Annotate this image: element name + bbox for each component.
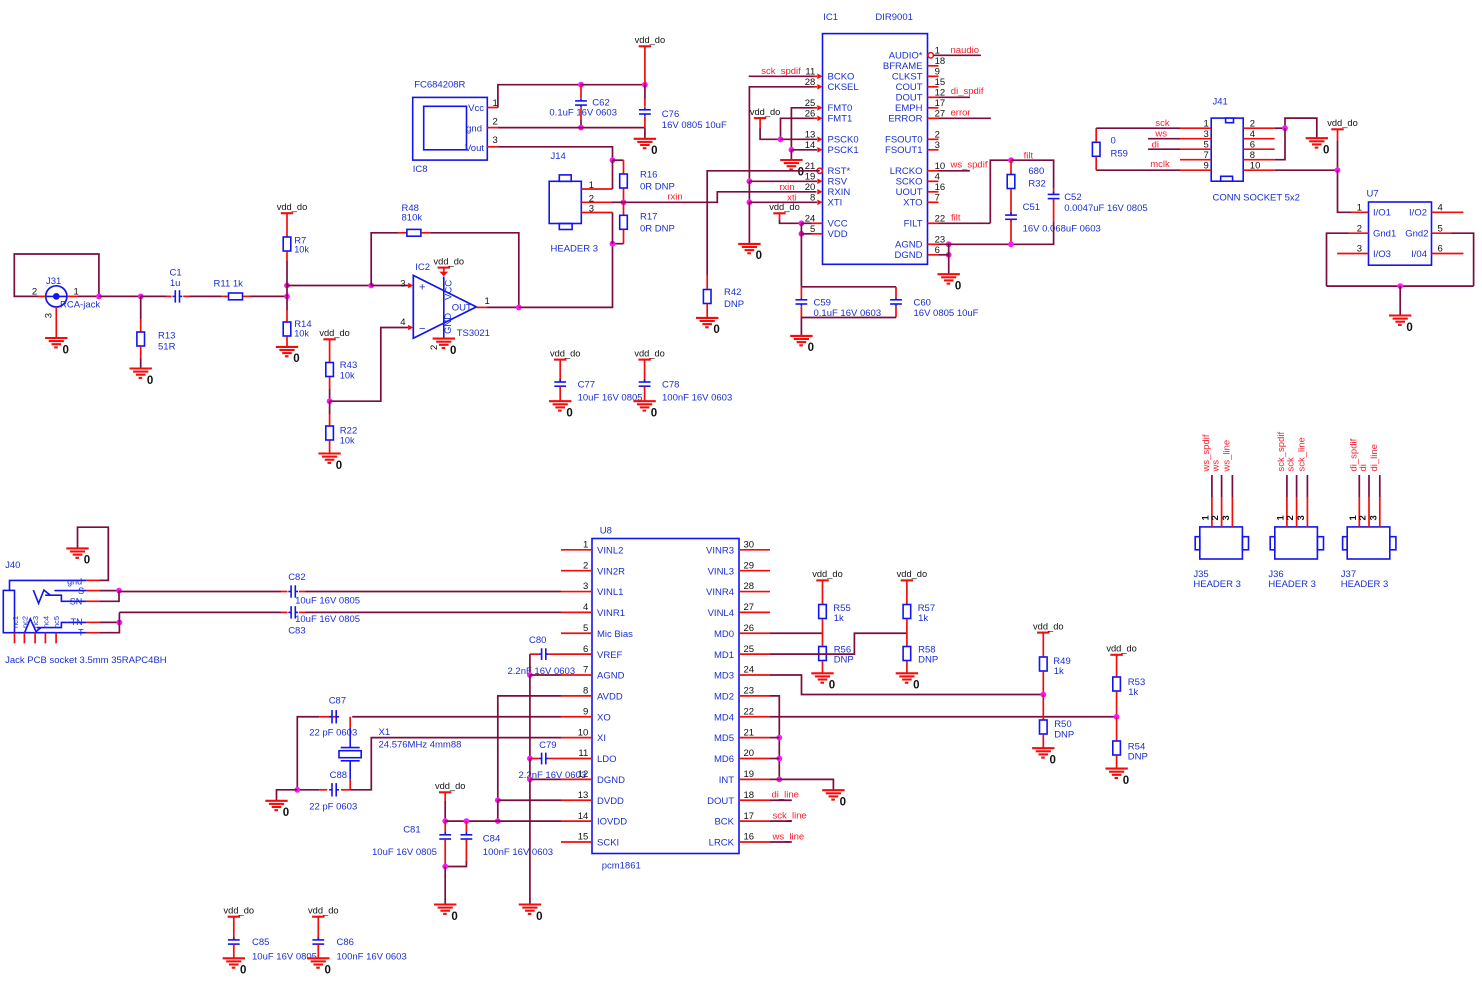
- svg-text:vdd_do: vdd_do: [635, 35, 666, 45]
- svg-text:vdd_do: vdd_do: [634, 348, 665, 358]
- capacitor C78: [639, 360, 733, 404]
- node junction C51 bottom: [1008, 241, 1014, 247]
- node junction C88 ground: [294, 787, 300, 793]
- wire vdd net down to U7 pin1: [1338, 170, 1369, 212]
- svg-text:21: 21: [744, 727, 755, 738]
- svg-text:XTO: XTO: [903, 198, 922, 209]
- svg-text:vdd_do: vdd_do: [1327, 118, 1358, 128]
- power vdd_do at C85: [224, 906, 255, 917]
- wire filt to C52: [1011, 160, 1054, 189]
- svg-text:sck_spdif: sck_spdif: [761, 66, 801, 77]
- power vdd_do at C78: [634, 348, 665, 359]
- svg-text:DOUT: DOUT: [896, 93, 923, 104]
- svg-text:0: 0: [913, 680, 919, 692]
- pin 3 wire J35: [1231, 475, 1233, 527]
- wire CKSEL to ground rail: [749, 87, 817, 182]
- svg-text:26: 26: [744, 623, 755, 634]
- wire C59 bottom stub: [800, 307, 802, 318]
- svg-text:R32: R32: [1028, 179, 1045, 190]
- power vdd_do at R53: [1106, 644, 1137, 655]
- wire R13 top: [140, 296, 142, 331]
- wire R53 to MD4 node: [1116, 692, 1118, 717]
- capacitor C83: [288, 606, 360, 636]
- wire C88 to XI: [341, 738, 561, 790]
- svg-text:0: 0: [1323, 145, 1329, 157]
- ground at C76: [634, 139, 658, 157]
- svg-text:24: 24: [744, 665, 755, 676]
- wire stub R48 left: [398, 232, 407, 234]
- capacitor C51: [1005, 202, 1101, 235]
- svg-text:DVDD: DVDD: [597, 796, 624, 807]
- pin 26 FMT1 IC1: [805, 108, 853, 124]
- wire C59 C60 top bar: [801, 286, 896, 288]
- pin 30 VINR3 U8: [706, 540, 770, 557]
- resistor R57: [903, 603, 935, 624]
- wire output to J14 riser: [519, 244, 613, 308]
- svg-text:Vcc: Vcc: [468, 103, 484, 114]
- resistor R48: [402, 203, 423, 236]
- capacitor C76: [639, 107, 727, 131]
- capacitor C82: [288, 572, 360, 607]
- svg-text:C88: C88: [330, 770, 347, 781]
- ground at J40: [66, 548, 90, 566]
- wire R59 to mclk line: [1096, 157, 1180, 170]
- node junction INT: [776, 776, 782, 782]
- svg-text:7: 7: [583, 665, 588, 676]
- wire RST to R42: [706, 275, 708, 289]
- svg-text:vdd_do: vdd_do: [319, 328, 350, 338]
- svg-text:1: 1: [583, 540, 588, 551]
- node junction rxin: [621, 199, 627, 205]
- wire J41 pin8 to pin2 rail: [1275, 128, 1285, 160]
- svg-text:gnd: gnd: [466, 124, 482, 135]
- svg-text:I/04: I/04: [1411, 249, 1427, 260]
- svg-text:22: 22: [744, 706, 755, 717]
- svg-text:RSV: RSV: [828, 177, 848, 188]
- svg-text:0: 0: [1111, 135, 1116, 146]
- ground at R13: [130, 369, 154, 387]
- svg-text:Mic Bias: Mic Bias: [597, 629, 633, 640]
- power vdd_do at R57: [897, 569, 928, 580]
- wire vdd to R49: [1042, 633, 1044, 657]
- wire J40 gnd to ground loop: [78, 527, 109, 580]
- node junction S: [116, 588, 122, 594]
- wire TN to C83: [119, 612, 287, 622]
- svg-text:18: 18: [744, 790, 755, 801]
- pin 10 XI U8: [561, 727, 606, 744]
- svg-text:DIR9001: DIR9001: [875, 12, 913, 23]
- wire C82 to U8 pin3: [299, 591, 561, 593]
- node junction MD6: [776, 756, 782, 762]
- pin 2 FSOUT0 IC1: [885, 129, 940, 145]
- svg-text:nc1: nc1: [11, 616, 20, 628]
- wire rail AGND to LDO: [529, 675, 531, 758]
- node junction C62 bottom: [578, 125, 584, 131]
- wire XTI: [749, 201, 817, 203]
- ground at AGND DGND: [938, 274, 962, 292]
- pin 2 wire J35: [1221, 475, 1223, 527]
- svg-text:VINR3: VINR3: [706, 545, 734, 556]
- wire vdd to R53: [1116, 655, 1118, 677]
- svg-text:sck: sck: [1155, 118, 1170, 129]
- wire S to C82: [119, 590, 288, 593]
- node junction J41 pin2: [1282, 125, 1288, 131]
- svg-text:0: 0: [336, 460, 342, 472]
- pin 1 AUDIO* IC1: [889, 45, 940, 61]
- capacitor C80: [508, 635, 576, 677]
- svg-text:2: 2: [583, 560, 588, 571]
- wire R32 to C51: [1010, 189, 1012, 215]
- connector J41 CONN SOCKET 5x2: [1211, 97, 1300, 204]
- svg-text:16V 0805 10uF: 16V 0805 10uF: [662, 120, 727, 131]
- wire vdd to R43: [329, 339, 331, 362]
- ground at C77: [549, 401, 573, 419]
- pin 23 MD2 U8: [714, 686, 770, 703]
- wire R50 to ground: [1042, 735, 1044, 749]
- ground at R50: [1032, 748, 1056, 766]
- node junction R17 output: [610, 241, 616, 247]
- pin 4 arrow IC2: [408, 325, 413, 331]
- wire rail LDO to DGND: [529, 759, 531, 780]
- wire R48 to output node: [421, 233, 518, 308]
- net ws wire: [1148, 138, 1180, 140]
- svg-text:LDO: LDO: [597, 754, 617, 765]
- net sck_spdif wire to BCKO: [749, 75, 817, 77]
- wire J14 pin3: [581, 213, 612, 244]
- capacitor C79: [519, 740, 587, 781]
- net naudio wire: [933, 54, 981, 56]
- node junction VDD: [799, 231, 805, 237]
- pin 11 BCKO IC1: [805, 66, 854, 82]
- svg-text:ws: ws: [1154, 129, 1167, 140]
- svg-text:IC1: IC1: [823, 12, 838, 23]
- pin 9 CLKST IC1: [892, 66, 940, 82]
- svg-text:Gnd1: Gnd1: [1373, 229, 1396, 240]
- connector J35 HEADER 3: [1193, 527, 1248, 590]
- pin 24 VCC IC1: [805, 213, 848, 229]
- wire R16 branch: [613, 159, 624, 161]
- wire R17 bottom stub: [623, 230, 625, 244]
- svg-text:IC2: IC2: [415, 262, 430, 273]
- pin 1 VINL2 U8: [561, 540, 623, 557]
- svg-text:C76: C76: [662, 109, 679, 120]
- svg-text:0: 0: [798, 166, 804, 178]
- resistor R55: [819, 603, 851, 624]
- svg-text:error: error: [951, 108, 971, 119]
- wire R49 to MD3 node: [1042, 672, 1044, 695]
- wire R16 top stub: [623, 160, 625, 174]
- node junction input lower: [284, 294, 290, 300]
- svg-text:0: 0: [955, 281, 961, 293]
- node junction DGND: [946, 252, 952, 258]
- svg-text:1: 1: [485, 296, 490, 307]
- svg-text:3: 3: [1221, 515, 1232, 520]
- svg-text:10: 10: [578, 727, 589, 738]
- wire inverting input: [330, 328, 408, 402]
- resistor R43: [326, 360, 357, 380]
- svg-text:I/O2: I/O2: [1409, 208, 1427, 219]
- power vdd_do at FMT1: [750, 107, 781, 118]
- resistor R49: [1040, 656, 1071, 677]
- svg-text:0: 0: [651, 145, 657, 157]
- svg-text:0: 0: [829, 680, 835, 692]
- ground at R14: [276, 347, 300, 365]
- svg-text:13: 13: [578, 790, 589, 801]
- svg-text:di_line: di_line: [1369, 444, 1380, 471]
- svg-text:0: 0: [536, 911, 542, 923]
- wire R49 R50 column: [1042, 695, 1044, 720]
- svg-text:11: 11: [578, 748, 588, 759]
- crystal X1: [339, 717, 461, 790]
- svg-text:MD2: MD2: [714, 691, 734, 702]
- svg-text:15: 15: [578, 832, 589, 843]
- wire R54 to ground: [1116, 756, 1118, 769]
- svg-text:GND: GND: [443, 313, 454, 334]
- svg-text:I/O3: I/O3: [1373, 249, 1391, 260]
- svg-text:di_line: di_line: [772, 790, 799, 801]
- svg-text:0.0047uF 16V 0805: 0.0047uF 16V 0805: [1064, 203, 1147, 214]
- capacitor C59: [796, 297, 882, 319]
- svg-text:VINL1: VINL1: [597, 587, 623, 598]
- node junction pin10 vdd U7: [1335, 167, 1341, 173]
- svg-text:ERROR: ERROR: [888, 114, 922, 125]
- wire rail to ground: [748, 202, 750, 244]
- resistor R54: [1113, 741, 1148, 763]
- ground at J41: [1306, 138, 1330, 156]
- svg-text:28: 28: [744, 581, 755, 592]
- node junction PSCK0 vdd: [778, 136, 784, 142]
- svg-text:RCA-jack: RCA-jack: [60, 300, 100, 311]
- svg-text:vdd_do: vdd_do: [435, 781, 466, 791]
- svg-text:100nF 16V 0603: 100nF 16V 0603: [483, 847, 553, 858]
- wire AVDD to rail: [498, 696, 561, 800]
- node junction U7 ground: [1397, 283, 1403, 289]
- wire U7 rail to ground: [1399, 286, 1401, 315]
- wire XO net: [297, 717, 561, 790]
- pin 8 AVDD U8: [561, 686, 623, 703]
- power vdd_do at VCC: [769, 202, 800, 213]
- wire R32 top stub: [1010, 160, 1012, 174]
- svg-text:VINR1: VINR1: [597, 608, 625, 619]
- wire C59 to ground: [800, 318, 802, 336]
- node junction input upper: [284, 283, 290, 289]
- svg-text:22 pF 0603: 22 pF 0603: [309, 801, 357, 812]
- wire J31 pin2 loop to pin1 node: [14, 254, 99, 296]
- ground at C86: [307, 958, 331, 976]
- svg-text:RXIN: RXIN: [828, 187, 851, 198]
- pin stubs J41 row 5: [1180, 148, 1275, 150]
- wire MD4 net: [770, 716, 1117, 718]
- svg-text:AGND: AGND: [895, 240, 923, 251]
- svg-text:19: 19: [744, 769, 755, 780]
- svg-text:XO: XO: [597, 712, 611, 723]
- wire VDD stub: [801, 233, 811, 235]
- svg-text:1k: 1k: [918, 613, 928, 624]
- wire C88 line: [297, 789, 327, 791]
- wire PSCK1: [791, 149, 817, 151]
- pin 17 EMPH IC1: [895, 98, 945, 114]
- wire rail to ground: [529, 779, 531, 904]
- wire MD6 stub: [770, 758, 779, 760]
- svg-text:AGND: AGND: [597, 671, 625, 682]
- svg-text:HEADER 3: HEADER 3: [1341, 579, 1389, 590]
- pin 18 BFRAME IC1: [883, 56, 945, 72]
- svg-text:FC684208R: FC684208R: [414, 80, 465, 91]
- pin 7 AGND U8: [561, 665, 625, 682]
- svg-text:0: 0: [651, 408, 657, 420]
- wire node to C1: [141, 295, 172, 297]
- svg-text:0: 0: [1406, 322, 1412, 334]
- svg-text:IC8: IC8: [413, 164, 428, 175]
- svg-text:rxin: rxin: [667, 192, 682, 203]
- node junction DGND rail: [527, 776, 533, 782]
- svg-text:100nF 16V 0603: 100nF 16V 0603: [337, 952, 407, 963]
- connector J40 jack socket: [3, 560, 166, 666]
- svg-text:SCKO: SCKO: [896, 177, 923, 188]
- wire J40 TN pin: [86, 621, 119, 623]
- net sck_line wire: [770, 820, 792, 822]
- wire IC8 Vcc to vdd rail: [487, 85, 581, 108]
- node junction IOVDD: [495, 818, 501, 824]
- IC U8 pcm1861 body: [592, 526, 739, 872]
- svg-text:DNP: DNP: [834, 655, 854, 666]
- node junction filt: [1008, 157, 1014, 163]
- capacitor C60: [890, 287, 979, 319]
- svg-text:1: 1: [1357, 202, 1362, 213]
- wire INT to ground: [770, 778, 779, 780]
- node junction DVDD: [495, 797, 501, 803]
- wire R57 R58 column: [906, 619, 908, 646]
- svg-text:vdd_do: vdd_do: [277, 202, 308, 212]
- wire C80 corner to AGND rail: [529, 654, 531, 675]
- svg-text:2: 2: [493, 116, 498, 127]
- svg-text:3: 3: [44, 313, 55, 318]
- node junction PSCK1 rail: [789, 147, 795, 153]
- ground at R54: [1105, 769, 1129, 787]
- svg-text:24.576MHz 4mm88: 24.576MHz 4mm88: [379, 739, 462, 750]
- wire U7 pin5 to ground rail: [1432, 233, 1474, 286]
- power vdd_do at IC2: [434, 256, 465, 267]
- svg-text:0: 0: [566, 408, 572, 420]
- svg-text:C86: C86: [337, 937, 354, 948]
- wire R13 bottom: [140, 347, 142, 369]
- svg-text:FMT0: FMT0: [828, 103, 853, 114]
- wire J40 T pin: [86, 622, 119, 632]
- svg-text:VINL2: VINL2: [597, 545, 623, 556]
- svg-text:LRCKO: LRCKO: [890, 166, 923, 177]
- svg-text:nc2: nc2: [21, 616, 30, 628]
- capacitor C81: [372, 821, 451, 866]
- pin 7 XTO IC1: [903, 192, 940, 208]
- svg-text:MD5: MD5: [714, 733, 734, 744]
- svg-text:DNP: DNP: [1128, 752, 1148, 763]
- svg-text:sck_line: sck_line: [773, 810, 807, 821]
- wire IC8 gnd rail: [487, 127, 645, 129]
- pin 21 RST* IC1: [805, 161, 851, 177]
- pin 15 SCKI U8: [561, 832, 619, 849]
- svg-text:1u: 1u: [170, 278, 181, 289]
- pin 28 VINR4 U8: [706, 581, 770, 598]
- svg-text:vdd_do: vdd_do: [769, 202, 800, 212]
- svg-text:29: 29: [744, 560, 755, 571]
- pin 1 wire J35: [1211, 475, 1213, 527]
- pin 26 MD0 U8: [714, 623, 770, 640]
- svg-text:MD0: MD0: [714, 629, 734, 640]
- svg-text:25: 25: [744, 644, 755, 655]
- wire R53 R54 column: [1116, 717, 1118, 741]
- wire R17 top stub: [623, 202, 625, 215]
- wire VCC stub: [801, 222, 811, 224]
- connector J36 HEADER 3: [1268, 527, 1323, 590]
- svg-text:PSCK1: PSCK1: [828, 145, 859, 156]
- svg-text:VREF: VREF: [597, 650, 623, 661]
- pin stubs J41 row 9: [1180, 169, 1275, 171]
- wire R14 to ground: [286, 337, 288, 347]
- svg-text:UOUT: UOUT: [896, 187, 923, 198]
- svg-text:9: 9: [583, 706, 588, 717]
- svg-text:C77: C77: [578, 379, 595, 390]
- wire J40 SN pin: [86, 591, 119, 602]
- wire node to R14: [286, 296, 288, 321]
- svg-text:C60: C60: [914, 297, 931, 308]
- wire DVDD pin to rail: [498, 799, 561, 801]
- resistor R11: [214, 279, 244, 300]
- wire PSCK0: [781, 138, 818, 140]
- wire R56 to ground: [822, 661, 824, 673]
- wire FMT1 to vdd: [760, 118, 817, 139]
- capacitor C87: [309, 695, 357, 738]
- pin 1 wire J36: [1286, 475, 1288, 527]
- svg-text:10uF 16V 0805: 10uF 16V 0805: [295, 596, 360, 607]
- svg-text:vdd_do: vdd_do: [434, 256, 465, 266]
- wire feedback tap to op-amp: [371, 285, 408, 287]
- svg-text:C81: C81: [403, 825, 420, 836]
- wire vdd to R57: [906, 580, 908, 604]
- svg-text:HEADER 3: HEADER 3: [551, 243, 599, 254]
- wire MD2 to ground rail: [770, 696, 779, 779]
- svg-text:ws_line: ws_line: [1222, 440, 1233, 473]
- pin 3 arrow IC2: [408, 283, 413, 289]
- svg-text:0: 0: [147, 375, 153, 387]
- svg-text:3: 3: [1368, 515, 1379, 520]
- ground at C81: [434, 905, 458, 923]
- pin 6 VREF U8: [561, 644, 623, 661]
- node junction XTI rail: [747, 199, 753, 205]
- pin 6 stub U7: [1432, 253, 1464, 255]
- svg-text:3: 3: [400, 278, 405, 289]
- wire J14 pin2 rxin: [581, 201, 623, 203]
- svg-text:C82: C82: [288, 572, 305, 583]
- ground at J31: [45, 338, 69, 356]
- resistor R13: [137, 330, 176, 352]
- wire AGND pin to rail: [530, 674, 561, 676]
- wire R42 to ground: [706, 304, 708, 318]
- svg-text:J14: J14: [551, 151, 566, 162]
- svg-text:HEADER 3: HEADER 3: [1268, 579, 1316, 590]
- pin 19 INT U8: [719, 769, 770, 786]
- svg-text:C84: C84: [483, 833, 500, 844]
- svg-text:0: 0: [450, 345, 456, 357]
- svg-text:pcm1861: pcm1861: [602, 861, 641, 872]
- node junction MD5: [776, 735, 782, 741]
- wire RST* net: [707, 171, 820, 275]
- pin 5 VDD IC1: [810, 224, 848, 240]
- svg-text:0.1uF 16V 0603: 0.1uF 16V 0603: [549, 108, 617, 119]
- node junction C81 top: [442, 818, 448, 824]
- pin 4 VINR1 U8: [561, 602, 625, 619]
- pin 4 stub U7: [1432, 211, 1464, 213]
- power vdd_do above C76: [635, 35, 666, 46]
